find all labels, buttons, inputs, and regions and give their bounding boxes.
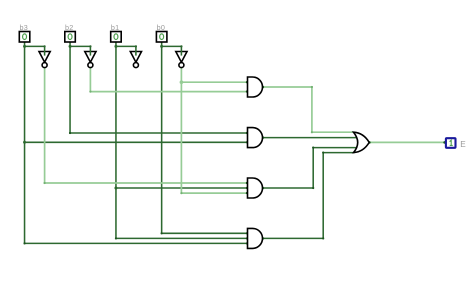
- wire b2 vertical from pin down: [69, 42, 71, 133]
- wire b2 branch to NOT b2: [70, 45, 90, 47]
- wire b0 branch to NOT b0: [162, 45, 182, 47]
- AND2 ports: [246, 132, 248, 134]
- stub into NOT b2: [89, 46, 91, 54]
- junction b3 to AND2: [23, 141, 26, 144]
- corner b3' to AND3: [44, 182, 46, 184]
- stub into NOT b0: [180, 46, 182, 54]
- svg-text:b3: b3: [20, 23, 29, 32]
- junction b2/NOT branch: [69, 45, 72, 48]
- corner AND4 route upper: [322, 152, 324, 154]
- AND gate 3: [248, 178, 263, 198]
- junction b3/NOT branch: [23, 45, 26, 48]
- AND gate 1: [248, 77, 263, 97]
- stub into NOT b1: [135, 46, 137, 54]
- NOT gate for b0: [176, 52, 187, 68]
- corner AND1 route bottom: [311, 131, 313, 133]
- corner b2' to AND1: [89, 91, 91, 93]
- wire b0' vertical from NOT b0 output down: [180, 68, 182, 194]
- wire AND3 output horizontal: [263, 187, 314, 189]
- wire into OR bottom input: [323, 152, 354, 154]
- corner b0' to AND3: [180, 192, 182, 194]
- corner AND3 route lower: [312, 187, 314, 189]
- AND1 ports: [246, 81, 248, 83]
- NOT gate input stubs (visible inside triangles): [45, 46, 182, 54]
- NOT gate for b1: [130, 52, 141, 68]
- wire b2' vertical from NOT b2 output down: [89, 68, 91, 92]
- wire AND2 output to OR input 2: [263, 137, 357, 139]
- pin E port: [443, 141, 446, 144]
- corner b0 to AND4: [161, 232, 163, 234]
- wire b3' horizontal to AND3 top input: [45, 182, 248, 184]
- input pin b2: [65, 23, 76, 42]
- junction b1 to AND3: [114, 187, 117, 190]
- junction b0/NOT branch: [160, 45, 163, 48]
- wire b0 vertical from pin down: [161, 42, 163, 233]
- corner branch NOT b1: [135, 45, 137, 47]
- wire b1 branch to AND3 middle input: [116, 187, 248, 189]
- corner b1 to AND4: [115, 237, 117, 239]
- corner branch NOT b2: [89, 45, 91, 47]
- output pin E: [446, 138, 466, 149]
- junction b0' to AND1 (light): [180, 80, 184, 84]
- input pin b1: [111, 23, 122, 42]
- NOT gate for b3: [39, 52, 50, 68]
- junction b1/NOT branch: [114, 45, 117, 48]
- input pin b0: [156, 23, 167, 42]
- svg-text:E: E: [460, 140, 466, 149]
- wire b0' horizontal to AND3 bottom input: [181, 192, 247, 194]
- AND4 ports: [246, 232, 248, 234]
- wire AND4 output horizontal: [263, 237, 324, 239]
- input pin b3: [19, 23, 30, 42]
- corner AND1 route top: [311, 86, 313, 88]
- wire b2 horizontal to AND2 top input: [70, 132, 247, 134]
- wire b1 vertical from pin down: [115, 42, 117, 238]
- corner AND4 route lower: [322, 237, 324, 239]
- wire AND1 output vertical down: [311, 87, 313, 132]
- wire AND4 output vertical up: [322, 153, 324, 239]
- wire b3' vertical from NOT b3 output down: [44, 68, 46, 183]
- svg-text:b1: b1: [111, 23, 120, 32]
- wire b3 branch to NOT b3: [25, 45, 45, 47]
- wire b1 horizontal to AND4 middle input: [116, 237, 248, 239]
- corner b3 to AND4: [23, 242, 25, 244]
- wire b2' horizontal to AND1 bottom input: [90, 91, 247, 93]
- corner AND3 route upper: [312, 147, 314, 149]
- NOT gate for b2: [85, 52, 96, 68]
- wire b3 branch to AND2 bottom input: [25, 141, 248, 143]
- corner branch NOT b3: [44, 45, 46, 47]
- wire AND3 output vertical up: [312, 148, 314, 188]
- corner branch NOT b0: [180, 45, 182, 47]
- corner b2 to AND2: [69, 132, 71, 134]
- wire b0' branch horizontal to AND1 top input: [181, 81, 247, 83]
- svg-text:b0: b0: [157, 23, 166, 32]
- wire b3 horizontal to AND4 bottom input: [25, 242, 248, 244]
- wire into OR input 3: [313, 147, 356, 149]
- wire into OR top input: [312, 131, 354, 133]
- stub into NOT b3: [44, 46, 46, 54]
- OR gate: [354, 132, 370, 152]
- wire OR output to pin E: [369, 141, 445, 143]
- wire b3 vertical from pin down: [24, 42, 26, 243]
- svg-text:b2: b2: [65, 23, 74, 32]
- wire b1 branch to NOT b1: [116, 45, 136, 47]
- AND3 ports: [246, 182, 248, 184]
- OR output port: [368, 141, 371, 144]
- AND gate 2: [248, 128, 263, 148]
- wire AND1 output horizontal: [263, 86, 312, 88]
- wire b0 horizontal to AND4 top input: [162, 232, 248, 234]
- AND gate 4: [248, 228, 263, 248]
